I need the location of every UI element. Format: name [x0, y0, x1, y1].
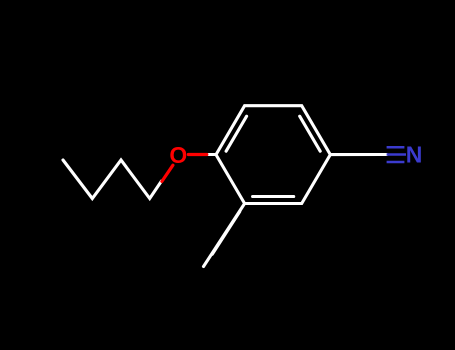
- svg-text:N: N: [406, 141, 423, 167]
- svg-text:O: O: [169, 142, 187, 168]
